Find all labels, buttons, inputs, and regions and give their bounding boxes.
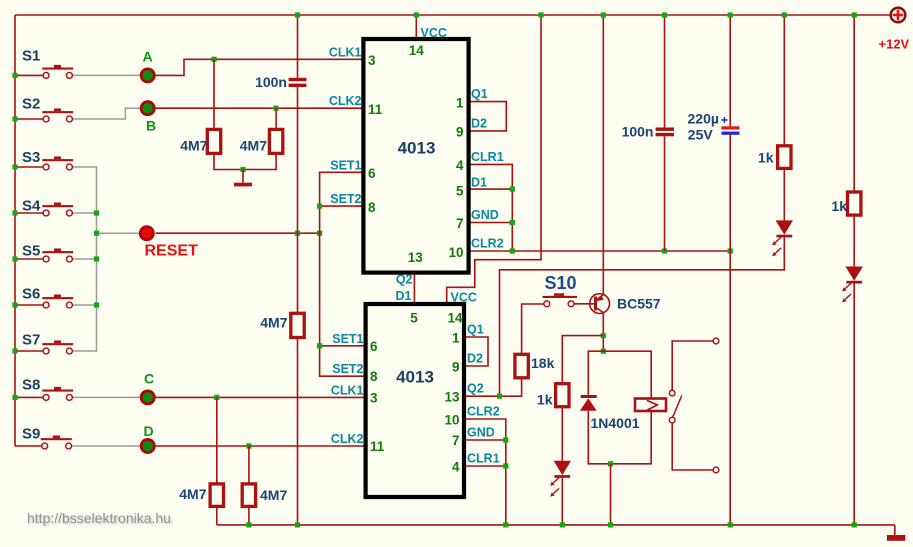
svg-text:9: 9 (456, 125, 464, 140)
svg-text:4013: 4013 (396, 368, 434, 387)
junction left rail row S6 (12, 302, 17, 307)
wire R1 R2 bottoms to ground (214, 153, 276, 169)
junction relay bottom rail (608, 522, 613, 527)
svg-text:8: 8 (370, 369, 378, 384)
wire IC1 Q1 to D2 feedback (469, 102, 507, 131)
svg-text:SET1: SET1 (330, 158, 361, 172)
svg-text:1k: 1k (831, 198, 847, 214)
wire VCC to C1 (297, 15, 299, 78)
svg-text:SET2: SET2 (330, 192, 361, 206)
resistor R7 1k (778, 146, 791, 169)
wire Q1 collector (602, 312, 604, 351)
wire RESET LED to SET pins (156, 232, 320, 234)
wire rail to S1 (15, 74, 44, 76)
svg-text:1: 1 (452, 331, 460, 346)
LED B indicator (141, 102, 154, 115)
svg-text:100n: 100n (255, 74, 287, 90)
wire rail to S7 (15, 350, 44, 352)
svg-text:1k: 1k (537, 392, 553, 408)
svg-text:1k: 1k (758, 150, 774, 166)
svg-text:4013: 4013 (398, 139, 436, 158)
wire S2 to LED B (gray) (72, 108, 140, 119)
wire IC2 pin 4 CLR1 (464, 465, 506, 467)
diode D1 1N4001 (581, 395, 597, 398)
wire SET1 IC1 (320, 172, 366, 376)
wire IC1 pin13 to IC2 pin5 (413, 273, 415, 304)
svg-text:6: 6 (368, 166, 376, 181)
junction bus S6 (94, 302, 99, 307)
svg-text:CLR2: CLR2 (471, 237, 504, 251)
wire S3-S7 reset bus (gray) (72, 167, 96, 351)
junction left rail row S4 (12, 210, 17, 215)
svg-text:D1: D1 (396, 289, 412, 303)
LED2 (846, 267, 863, 281)
LED D indicator (141, 439, 154, 452)
svg-text:C: C (144, 371, 154, 387)
svg-text:25V: 25V (688, 127, 714, 143)
svg-text:4M7: 4M7 (240, 138, 267, 154)
LED C indicator (141, 391, 154, 404)
svg-text:http://bsselektronika.hu: http://bsselektronika.hu (27, 510, 171, 526)
resistor R9 18k (515, 354, 528, 378)
svg-text:VCC: VCC (451, 291, 477, 305)
svg-text:6: 6 (370, 339, 378, 354)
svg-text:CLR2: CLR2 (467, 405, 500, 419)
wire IC2 pin 7 GND (464, 439, 506, 441)
wire IC1 CLR1 chain (469, 164, 513, 251)
wire IC2 Q1 to D2 feedback (464, 337, 488, 366)
junction top rail VCC IC2 (538, 12, 543, 17)
wire R5 top (216, 397, 218, 484)
wire VCC to R8 (853, 15, 855, 192)
ground symbol bottom right (894, 525, 896, 535)
svg-text:S3: S3 (22, 149, 40, 166)
resistor R5 4M7 (210, 484, 223, 507)
wire R6 top (248, 446, 250, 484)
relay contact upper (669, 390, 675, 396)
svg-text:Q2: Q2 (396, 273, 413, 287)
svg-text:4M7: 4M7 (260, 487, 287, 503)
junction IC1 D1 chain (510, 187, 515, 192)
junction relay ground node (608, 461, 613, 466)
switch S5 (42, 251, 73, 253)
wire S9 to LED D (gray) (72, 445, 140, 447)
wire left supply rail (14, 15, 16, 446)
svg-text:7: 7 (456, 216, 464, 231)
wire relay node to bottom rail (610, 464, 612, 525)
junction top rail R8 (852, 12, 857, 17)
svg-text:220µ: 220µ (688, 111, 719, 127)
junction IC2 CLR1 chain (503, 463, 508, 468)
svg-text:S8: S8 (22, 377, 40, 394)
svg-text:A: A (143, 49, 153, 65)
switch S10 (543, 296, 578, 298)
switch S9 (41, 438, 72, 440)
junction bus RESET (94, 231, 99, 236)
wire VCC to R7 (783, 15, 785, 146)
svg-text:10: 10 (448, 245, 463, 260)
svg-text:4: 4 (456, 158, 464, 173)
svg-text:D2: D2 (467, 352, 483, 366)
junction IC2 chain bottom rail (503, 522, 508, 527)
wire rail to S8 (15, 396, 44, 398)
svg-text:5: 5 (410, 310, 418, 325)
switch S4 (42, 205, 73, 207)
wire VCC to Q1 emitter (602, 15, 604, 295)
svg-text:GND: GND (467, 426, 495, 440)
svg-text:8: 8 (368, 200, 376, 215)
wire IC1 pin 5 D1 (469, 188, 513, 190)
junction SET2 IC1 (317, 204, 322, 209)
wire C2 to CLR2 row (664, 136, 666, 251)
wire relay contact top terminal (672, 341, 713, 390)
junction R6 bottom rail (246, 522, 251, 527)
LED A indicator (141, 69, 154, 82)
junction left rail row S7 (12, 348, 17, 353)
wire LED3 to bottom rail (561, 478, 563, 525)
svg-text:13: 13 (444, 390, 460, 405)
resistor R2 4M7 (269, 129, 282, 153)
svg-text:CLK1: CLK1 (329, 45, 362, 59)
wire R1 top (213, 59, 215, 129)
svg-text:4M7: 4M7 (179, 486, 206, 502)
junction left rail row S8 (12, 395, 17, 400)
junction left rail row S5 (12, 256, 17, 261)
junction top rail emitter line (601, 12, 606, 17)
svg-text:4M7: 4M7 (180, 138, 207, 154)
svg-text:9: 9 (452, 360, 460, 375)
svg-text:VCC: VCC (421, 26, 447, 40)
svg-text:7: 7 (452, 433, 460, 448)
svg-text:BC557: BC557 (617, 296, 661, 312)
wire R7 to LED1 (783, 168, 785, 220)
junction R3 bottom rail (295, 522, 300, 527)
wire rail to S3 (15, 166, 44, 168)
switch S2 (42, 111, 73, 113)
wire rail to S9 (15, 445, 44, 447)
svg-text:1: 1 (456, 95, 464, 110)
wire LED C to IC2 pin 3 (156, 396, 366, 398)
resistor R10 1k (556, 384, 569, 407)
svg-text:+12V: +12V (879, 37, 910, 52)
svg-text:SET1: SET1 (332, 332, 363, 346)
svg-text:18k: 18k (531, 355, 555, 371)
terminal relay NO (713, 338, 719, 344)
relay contact blade (673, 396, 682, 418)
junction left rail row S2 (12, 116, 17, 121)
resistor R8 1k (848, 192, 861, 215)
junction RESET / SET line (317, 231, 322, 236)
junction C3 bottom rail (728, 522, 733, 527)
wire rail to S6 (15, 304, 44, 306)
wire RESET row to R3 (297, 233, 299, 313)
svg-text:Q2: Q2 (467, 382, 484, 396)
wire R3 to bottom rail (297, 338, 299, 525)
junction node D / R6 (246, 443, 251, 448)
wire IC2 Q2 to R9 (464, 378, 522, 396)
junction IC1 GND chain (510, 220, 515, 225)
junction node A / R1 (211, 57, 216, 62)
wire S4 to bus (gray) (72, 212, 96, 214)
svg-text:SET2: SET2 (332, 362, 363, 376)
wire S6 to bus (gray) (72, 304, 96, 306)
svg-text:D2: D2 (471, 116, 487, 130)
wire LED2 to bottom rail (853, 283, 855, 525)
junction collector to R10 (601, 333, 606, 338)
LED RESET indicator (140, 227, 153, 240)
svg-text:13: 13 (408, 250, 424, 265)
svg-text:1N4001: 1N4001 (591, 415, 640, 431)
wire relay contact bottom terminal (672, 423, 713, 470)
wire rail to S2 (15, 118, 44, 120)
wire S5 to bus (gray) (72, 258, 96, 260)
junction left rail row S3 (12, 164, 17, 169)
wire +12V top rail (15, 14, 891, 16)
wire R2 top (275, 108, 277, 129)
junction left rail row S1 (12, 73, 17, 78)
wire S1 to LED A (gray) (72, 74, 140, 76)
LED1 (776, 220, 793, 234)
terminal +12V (891, 8, 906, 23)
svg-text:3: 3 (370, 390, 378, 405)
wire LED B to IC1 pin 11 (CLK2 net) (156, 107, 364, 109)
label C3 plus (721, 119, 727, 121)
junction SET1 IC2 (317, 343, 322, 348)
junction collector relay node (601, 349, 606, 354)
wire IC1 pin 10 CLR2 row (469, 250, 731, 252)
svg-text:3: 3 (368, 53, 376, 68)
wire S8 to LED C (gray) (72, 396, 140, 398)
junction top rail C3 (728, 12, 733, 17)
wire relay coil top loop (588, 351, 651, 398)
svg-text:CLK1: CLK1 (331, 383, 364, 397)
svg-text:11: 11 (370, 439, 385, 454)
wire C3 to bottom rail (729, 135, 731, 525)
svg-text:S1: S1 (22, 48, 40, 65)
terminal relay COM (713, 467, 719, 473)
svg-text:Q1: Q1 (471, 87, 488, 101)
junction LED3 bottom rail (560, 522, 565, 527)
wire IC1 pin 7 GND (469, 222, 513, 224)
svg-text:S5: S5 (22, 243, 40, 260)
junction CLR2 C3 (728, 248, 733, 253)
svg-text:14: 14 (409, 43, 425, 58)
wire S10 to Q1 base (574, 303, 594, 305)
wire collector to R10 (562, 336, 603, 384)
wire LED1 to Q2 node (500, 238, 785, 397)
junction bus S4 (94, 210, 99, 215)
resistor R3 4M7 (291, 313, 304, 337)
svg-text:4: 4 (452, 459, 460, 474)
wire SET2 IC1 (320, 205, 364, 207)
relay contact lower (669, 417, 675, 423)
junction node B / R2 (274, 106, 279, 111)
svg-text:S7: S7 (22, 332, 40, 349)
svg-text:CLK2: CLK2 (329, 94, 362, 108)
junction top rail C1 (295, 12, 300, 17)
svg-text:10: 10 (444, 412, 459, 427)
wire R10 to LED3 (561, 407, 563, 461)
wire LED A to IC1 pin 3 (CLK1 net) (156, 59, 364, 75)
resistor R6 4M7 (242, 484, 255, 507)
wire bus to RESET LED (gray) (97, 232, 141, 234)
wire R9 to S10 (522, 304, 545, 354)
wire VCC to C3 (729, 15, 731, 126)
junction top rail R7 (782, 12, 787, 17)
junction CLR2 chain (510, 248, 515, 253)
wire rail to S5 (15, 258, 44, 260)
svg-text:S2: S2 (22, 96, 40, 113)
wire ground bottom rail (217, 524, 895, 526)
wire R8 to LED2 (853, 215, 855, 266)
wire R6 to bottom rail (248, 506, 250, 525)
wire IC2 CLR2 chain (464, 419, 506, 525)
svg-text:D: D (144, 423, 154, 439)
svg-text:B: B (146, 118, 156, 134)
op-amp U2 4013 body (366, 304, 464, 497)
resistor R1 4M7 (207, 129, 220, 153)
switch S3 (42, 159, 73, 161)
capacitor C3 220u 25V electrolytic (722, 126, 740, 129)
capacitor C2 100n (656, 128, 674, 131)
switch S6 (42, 297, 73, 299)
svg-text:CLK2: CLK2 (331, 432, 364, 446)
junction R1 R2 ground node (240, 167, 245, 172)
svg-text:CLR1: CLR1 (467, 452, 500, 466)
wire SET1 IC2 (320, 345, 366, 347)
svg-text:S9: S9 (22, 426, 40, 443)
svg-text:GND: GND (471, 208, 499, 222)
svg-text:Q1: Q1 (467, 323, 484, 337)
wire rail to S4 (15, 212, 44, 214)
svg-text:D1: D1 (471, 176, 487, 190)
svg-text:S6: S6 (22, 286, 40, 303)
junction RESET / R3 (295, 231, 300, 236)
svg-text:S4: S4 (22, 198, 41, 215)
LED3 (554, 461, 571, 475)
junction IC2 GND chain (503, 437, 508, 442)
junction top rail C2 (662, 12, 667, 17)
switch S1 (42, 68, 73, 70)
switch S8 (42, 390, 73, 392)
capacitor C1 100n (289, 78, 307, 81)
svg-text:S10: S10 (545, 273, 577, 293)
ground symbol upper (242, 170, 244, 183)
op-amp U1 4013 body (363, 39, 468, 273)
svg-text:5: 5 (456, 184, 464, 199)
junction LED2 bottom rail (852, 522, 857, 527)
junction bus S5 (94, 256, 99, 261)
wire C1 to RESET row (297, 87, 299, 233)
svg-text:RESET: RESET (145, 243, 199, 260)
wire D1 to bottom loop (588, 411, 651, 464)
svg-text:11: 11 (368, 102, 383, 117)
junction top rail IC1 VCC (414, 12, 419, 17)
svg-text:14: 14 (447, 310, 463, 325)
svg-text:100n: 100n (622, 124, 654, 140)
switch S7 (42, 343, 73, 345)
junction node C / R5 (214, 395, 219, 400)
wire VCC to C2 (664, 15, 666, 128)
wire IC1 pin 14 VCC stub (415, 15, 417, 41)
transistor Q1 BC557 (590, 294, 610, 314)
svg-text:CLR1: CLR1 (471, 150, 504, 164)
wire LED D to IC2 pin 11 (156, 445, 366, 447)
wire VCC to IC2 pin 14 (447, 15, 541, 304)
svg-text:4M7: 4M7 (260, 315, 287, 331)
junction Q2 node (497, 394, 502, 399)
wire R5 to bottom rail (216, 506, 218, 525)
relay K1 coil (635, 399, 666, 412)
junction CLR2 C2 (662, 248, 667, 253)
